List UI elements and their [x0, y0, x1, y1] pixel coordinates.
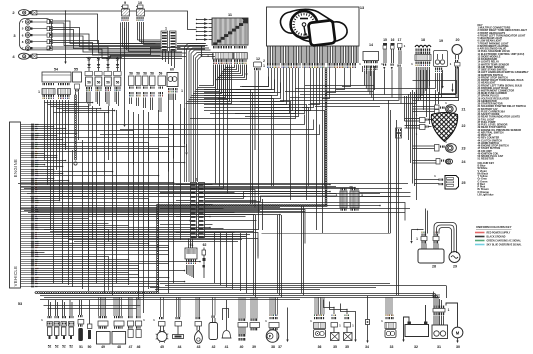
main harness block 53: [10, 122, 21, 288]
wires ladder to resistor 61: [188, 239, 190, 249]
wires from horn 20 bend left: [415, 69, 456, 95]
svg-text:52: 52: [55, 345, 59, 349]
relay 56: [85, 72, 93, 76]
ground link at regulator: [412, 229, 424, 231]
dashboard connector colour specks: [266, 67, 269, 69]
svg-text:32: 32: [414, 345, 418, 349]
dashboard housing outline: [280, 9, 347, 42]
wire loop top right with ground arrow: [413, 81, 457, 94]
svg-text:51 RESISTOR: 51 RESISTOR: [478, 158, 494, 161]
wire from horn 2: [37, 11, 197, 30]
svg-text:LB Light blue: LB Light blue: [478, 193, 495, 196]
ground arrow below ECU right connector: [246, 65, 248, 74]
wires from fuse carrier 26 right: [360, 192, 411, 194]
relay 14 wire drops: [364, 71, 366, 86]
relay 56: [114, 72, 122, 76]
svg-text:RED POWER SUPPLY: RED POWER SUPPLY: [487, 233, 511, 235]
nested corner wires below ECU: [204, 90, 251, 205]
svg-text:44: 44: [178, 345, 182, 349]
svg-text:56: 56: [97, 81, 101, 85]
svg-text:23: 23: [462, 147, 466, 151]
svg-text:53: 53: [18, 302, 22, 306]
svg-text:28: 28: [432, 265, 436, 269]
relay 56: [104, 72, 112, 76]
wire from horn 4: [37, 48, 181, 55]
svg-text:58: 58: [150, 72, 154, 76]
dashboard wire drops: [267, 46, 269, 63]
ECU 11 connectors below: [213, 46, 214, 48]
svg-text:42: 42: [212, 345, 216, 349]
lamp group 3 enclosure: [20, 19, 52, 50]
dashboard connector row: [267, 63, 268, 66]
svg-text:58: 58: [143, 72, 147, 76]
svg-text:46: 46: [137, 345, 141, 349]
ground arrow mid right: [411, 230, 413, 241]
svg-text:25: 25: [462, 181, 466, 185]
svg-text:60: 60: [170, 68, 174, 72]
svg-text:13: 13: [360, 6, 364, 10]
svg-text:50: 50: [88, 345, 92, 349]
svg-text:24: 24: [462, 160, 466, 164]
svg-text:VEHICLE: VEHICLE: [13, 266, 18, 287]
svg-text:1: 1: [416, 237, 418, 241]
dashboard box 13: [267, 7, 360, 46]
svg-text:37: 37: [278, 345, 282, 349]
connector block left of headlight: [396, 128, 402, 133]
svg-text:58: 58: [136, 72, 140, 76]
ground arrow below 18: [442, 70, 444, 86]
front right indicator 21: [435, 105, 440, 109]
svg-text:48: 48: [117, 345, 121, 349]
svg-text:30: 30: [456, 345, 460, 349]
harness bundle mid 2: [20, 208, 410, 210]
svg-text:SKY BLUE OVERDRIVE SIGNAL: SKY BLUE OVERDRIVE SIGNAL: [487, 244, 523, 247]
svg-text:62: 62: [203, 243, 207, 247]
block 53 pins: [21, 124, 32, 126]
LCD display: [308, 20, 335, 46]
svg-text:56: 56: [87, 81, 91, 85]
wires from horn 20 bend left: [415, 67, 457, 98]
svg-text:34: 34: [365, 345, 369, 349]
svg-text:35: 35: [345, 345, 349, 349]
harness bundle mid: [18, 183, 408, 185]
loop wire neutral switch: [223, 309, 229, 321]
bus continuation right of connector 1: [177, 43, 205, 45]
front left indicator 23: [435, 145, 440, 152]
svg-text:15: 15: [383, 38, 387, 42]
parking light 24: [436, 159, 440, 165]
harness bundle bottom: [160, 283, 390, 285]
wire from lamp 3: [53, 21, 161, 44]
svg-text:41: 41: [225, 345, 229, 349]
svg-text:18: 18: [421, 38, 425, 42]
svg-text:21: 21: [462, 108, 466, 112]
wire from lamp 3: [53, 47, 187, 57]
wire bundle curving down right of flasher: [185, 44, 207, 183]
wires from ladder connector right: [205, 184, 213, 186]
dashboard bend-left wires: [242, 68, 269, 87]
svg-text:59: 59: [159, 72, 163, 76]
svg-text:9: 9: [124, 1, 126, 5]
svg-text:40: 40: [240, 345, 244, 349]
svg-text:22: 22: [462, 124, 466, 128]
svg-text:36: 36: [318, 345, 322, 349]
bottom sub-bus: [44, 305, 141, 307]
twisted pair chain centre: [325, 68, 327, 71]
svg-text:1: 1: [38, 90, 40, 94]
ECU 11 left pins: [197, 19, 205, 21]
svg-text:1: 1: [181, 89, 183, 93]
svg-text:49: 49: [101, 345, 105, 349]
svg-text:52: 52: [62, 345, 66, 349]
relay 56: [95, 72, 103, 76]
coil feed verticals: [120, 23, 122, 72]
svg-text:58: 58: [129, 72, 133, 76]
svg-text:54: 54: [54, 68, 58, 72]
svg-text:43: 43: [197, 345, 201, 349]
svg-text:29: 29: [453, 265, 457, 269]
diode feed bus: [86, 57, 122, 59]
starter motor ground: [457, 338, 459, 341]
svg-text:19: 19: [439, 39, 443, 43]
wires from ladder connector left: [176, 184, 191, 186]
wires generator to regulator connector: [439, 228, 452, 254]
wires below valves 9 10: [122, 22, 124, 47]
svg-text:39: 39: [252, 345, 256, 349]
svg-text:1: 1: [448, 308, 450, 312]
harness bundle lower mid left: [44, 229, 258, 231]
bottom bundle right drops: [446, 286, 448, 299]
svg-text:52: 52: [69, 345, 73, 349]
svg-text:47: 47: [129, 345, 133, 349]
svg-text:UNIFORM COLOURS KEY: UNIFORM COLOURS KEY: [476, 225, 512, 229]
wire across white zone: [262, 233, 391, 235]
wires into regulator connectors: [421, 244, 423, 250]
svg-text:GREEN CHARGING AC SIGNAL: GREEN CHARGING AC SIGNAL: [487, 240, 522, 243]
headlight 22: [431, 113, 457, 142]
ground wire with arrow top left: [65, 11, 67, 62]
harness wires from block 53: [35, 125, 174, 159]
ignition switch 19 wire drops: [435, 73, 437, 89]
svg-text:17: 17: [398, 38, 402, 42]
wire from lamp 3: [53, 34, 161, 50]
headlight 22 connectors: [420, 118, 426, 123]
svg-text:52: 52: [48, 345, 52, 349]
regulator feed verticals: [425, 209, 427, 234]
horn 2: [19, 10, 30, 16]
wire from lamp 3: [53, 28, 161, 47]
svg-text:45: 45: [160, 345, 164, 349]
svg-text:31: 31: [437, 345, 441, 349]
svg-text:55: 55: [74, 68, 78, 72]
level sensor wire with arrow: [287, 308, 289, 340]
svg-text:14: 14: [369, 43, 373, 47]
svg-text:33: 33: [390, 345, 394, 349]
svg-text:38: 38: [271, 345, 275, 349]
svg-text:2: 2: [263, 59, 265, 63]
wire from lamp 3: [53, 41, 187, 54]
svg-text:1: 1: [165, 27, 167, 31]
svg-text:M: M: [456, 331, 460, 336]
switch assembly 18 wire drops: [415, 67, 417, 104]
bottom drops to components: [98, 297, 100, 316]
fuse box 54 connectors: [43, 83, 44, 85]
svg-text:ENGINE: ENGINE: [13, 159, 18, 177]
speedometer gauge: [291, 11, 318, 38]
svg-text:11: 11: [228, 13, 232, 17]
wires to lamps: [413, 106, 435, 108]
dashboard bend-left wires: [240, 77, 269, 87]
svg-text:1: 1: [196, 178, 198, 182]
horn 4: [19, 53, 30, 59]
svg-text:56: 56: [116, 81, 120, 85]
svg-text:16: 16: [391, 38, 395, 42]
battery ground: [404, 317, 410, 340]
svg-text:1: 1: [263, 64, 265, 68]
svg-text:20: 20: [456, 38, 460, 42]
ground arrow left of ECU connectors: [201, 46, 203, 54]
feed links to indicators 35: [324, 300, 335, 315]
vertical harness wires: [44, 100, 46, 160]
twisted pair chain left: [75, 95, 77, 98]
harness jogs below connectors: [45, 102, 93, 104]
ground arrow left mid: [186, 144, 188, 152]
ECU wire drops: [199, 65, 214, 86]
wires below connector 1 top: [162, 51, 164, 60]
svg-text:BLACK GROUND: BLACK GROUND: [487, 236, 506, 239]
svg-text:35: 35: [333, 345, 337, 349]
svg-text:56: 56: [106, 81, 110, 85]
right vertical bundle: [404, 96, 406, 121]
svg-text:10: 10: [138, 1, 142, 5]
svg-text:12: 12: [256, 57, 260, 61]
ground arrow under relay drops: [124, 112, 126, 125]
svg-text:51: 51: [79, 345, 83, 349]
ECU long drops to ladder bundle: [215, 65, 217, 184]
right bend band: [305, 85, 374, 87]
